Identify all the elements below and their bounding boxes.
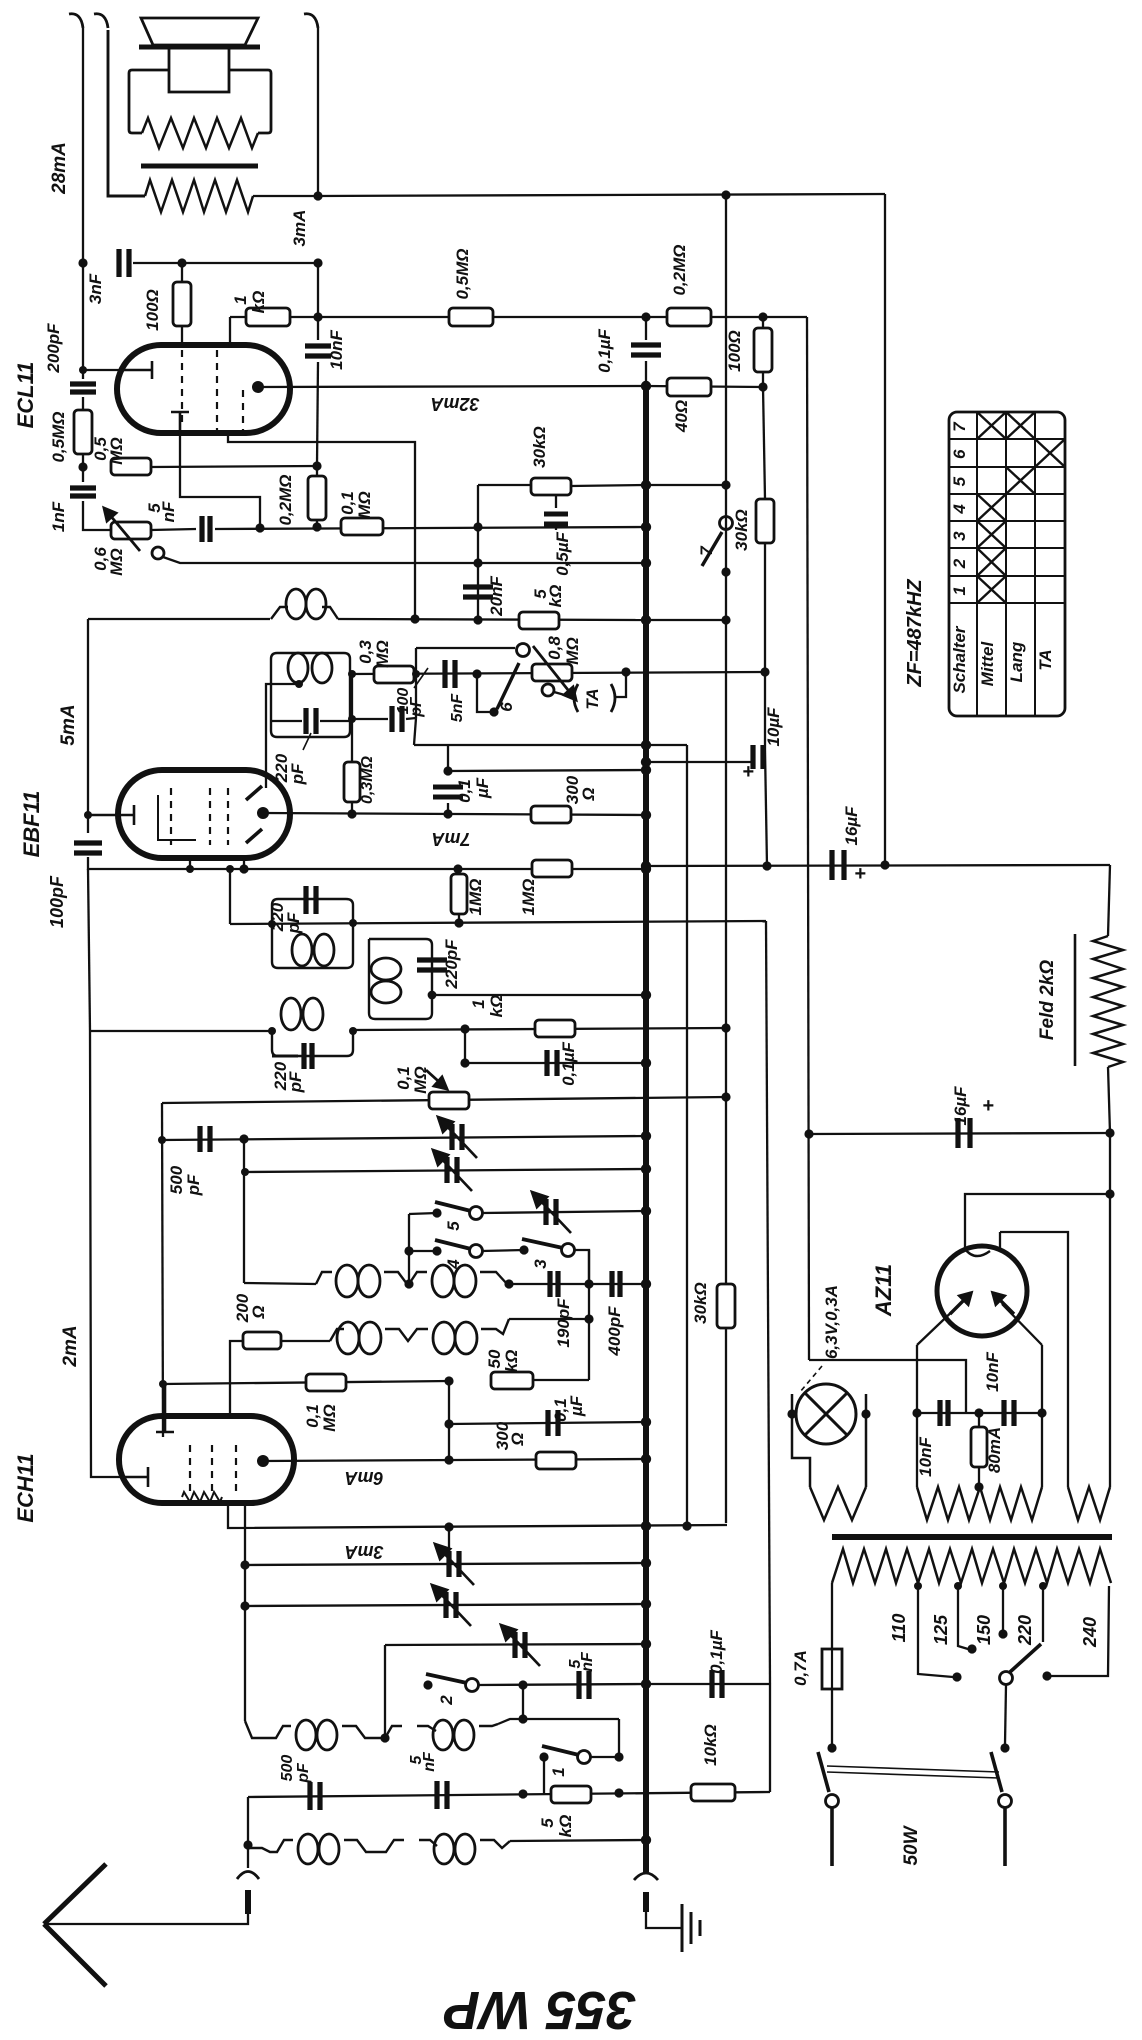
tube ECL11 anode [252,381,264,393]
node 3mA/y263 [313,258,322,267]
svg-text:pF: pF [184,1174,203,1196]
svg-text:3mA: 3mA [290,210,309,247]
node y814 x352 [347,809,356,818]
bus jack pin [643,1892,649,1912]
svg-text:EBF11: EBF11 [19,791,44,858]
svg-text:MΩ: MΩ [320,1404,339,1431]
switch 5 lever [435,1202,471,1211]
switch mains left lever [818,1752,829,1792]
resistor 0,2MΩ bias [308,476,326,520]
tube AZ11 filament right [993,1293,1014,1314]
tube ECH11 heater [182,1492,222,1502]
resistor 0,8MΩ vol [532,664,572,681]
speaker cone base bar [139,45,260,50]
resistor 300Ω screen [531,806,571,823]
rectifier heater winding [1068,1487,1110,1520]
wire 80mA top [978,1413,980,1427]
resistor 0,8MΩ arrow [533,646,576,700]
wire y1565 [245,1563,646,1565]
variable capacitor ant 2 [446,1592,456,1618]
wire heater right arm [1041,1345,1043,1487]
wire y745 [414,744,687,746]
svg-text:µF: µF [473,777,492,799]
node y1795 x619 [614,1788,623,1797]
svg-text:4: 4 [950,504,969,515]
svg-text:7mA: 7mA [431,829,470,849]
svg-text:MΩ: MΩ [107,437,126,464]
node y485 bus [641,480,651,490]
svg-text:3: 3 [950,531,969,541]
wire y718b [406,718,416,719]
tank3 frame [272,1031,353,1056]
wire 28mA rail [82,28,84,263]
switch 7 contact [721,567,730,576]
node osc tank out [428,991,437,1000]
node y1172 bus [641,1164,651,1174]
wire TA left [554,692,572,697]
wire TA right [615,672,626,697]
wire x619 [618,1719,620,1757]
svg-text:100Ω: 100Ω [725,330,744,372]
osc tank frame [369,939,432,1019]
switch mains right stub [1003,1808,1007,1866]
wire y1030 [353,1028,726,1030]
svg-text:pF: pF [288,763,307,785]
svg-text:Lang: Lang [1007,641,1026,682]
wire 1k ohm lead into tube [229,317,231,348]
capacitor 220pF tank3 [304,1043,312,1069]
wire triode cathode [180,433,260,528]
wire x318 cap to y465 [317,362,318,465]
wire x88 rail [87,619,89,833]
voltage selector lever [1010,1644,1041,1672]
tap 240 contact [1042,1671,1051,1680]
node y317/3mA rail [313,312,322,321]
antenna coil row4 end [480,1840,510,1848]
wire y1413 [917,1412,1042,1414]
capacitor 0,1µF ant [712,1670,722,1698]
node y869 1M top [453,864,462,873]
voltage selector pivot [1000,1672,1013,1685]
svg-text:+: + [982,1095,994,1117]
tank3 cap stub [272,1055,298,1058]
wire y620 right [646,619,726,621]
svg-text:3mA: 3mA [344,1542,383,1562]
svg-text:150: 150 [974,1615,994,1645]
wire x448 low [447,803,449,814]
wire x162 [162,1103,163,1437]
switch 1 pivot [578,1751,591,1764]
node y674 rail767 [760,667,769,676]
wire bus feeder lower [645,361,647,386]
switch 1 contact [539,1752,548,1761]
resistor 5kΩ ant [551,1786,591,1803]
svg-text:0,1µF: 0,1µF [707,1629,726,1673]
node x245 y1565 [240,1560,249,1569]
tap 220 node [1039,1582,1047,1590]
wire y1172 [245,1169,646,1172]
wire x230 [229,869,231,924]
connector hook left speaker [94,14,108,28]
tap 150 [1002,1586,1004,1630]
wire row4 to bus [510,1840,646,1841]
node y814 x448 [443,809,452,818]
tap 125 node [954,1582,962,1590]
wire y1138 [162,1136,646,1140]
lamp heater winding [810,1487,866,1520]
resistor 1MΩ grid [451,874,467,914]
svg-text:125: 125 [931,1614,951,1645]
antenna coil row3 loops A [296,1720,337,1750]
wire EBF pin1 [189,858,191,869]
wire y1063 [465,1062,646,1064]
wire speaker to connector [108,30,145,196]
svg-text:10kΩ: 10kΩ [701,1724,720,1766]
node y1133 right [1105,1128,1114,1137]
svg-text:50W: 50W [901,1824,922,1865]
capacitor 0,1µF bus [631,345,661,355]
connector hook antenna [237,1872,259,1880]
tap 110 contact [952,1672,961,1681]
node tank3 right [349,1027,357,1035]
oscillator coil winding B [409,1272,427,1284]
svg-text:AZ11: AZ11 [871,1264,896,1317]
svg-text:0,1µF: 0,1µF [595,328,614,372]
wire 50k right [533,1379,589,1381]
switch 4 contact [432,1246,441,1255]
wire fuse bottom [831,1689,833,1744]
oscillator coil D winding2 [481,1319,509,1334]
svg-text:Mittel: Mittel [978,641,997,687]
output transformer core [141,164,258,169]
wire x448 from y745 [447,745,449,771]
switch 5 pivot [470,1207,483,1220]
wire y485 to bus [571,485,646,486]
node IF2 right [349,919,357,927]
wire pentode cathode [228,433,415,620]
node y195 rail 726 [721,190,730,199]
wire x352 low [351,802,353,814]
node y865 x885 [880,860,889,869]
node y1384 x162 [159,1380,167,1388]
wire EBF anode [263,813,646,815]
svg-text:220: 220 [1015,1615,1035,1646]
switch 3 lever [522,1239,563,1248]
node grid/200pF [79,366,87,374]
resistor 0,3MΩ load [344,762,360,802]
rf choke loops [286,589,326,619]
svg-text:10nF: 10nF [916,1437,935,1477]
lamp bracket left [792,1394,810,1487]
wire 1M grid bottom [458,914,460,923]
wire 100pF to y869 [88,857,646,869]
resistor 0,1MΩ ECH [306,1374,346,1391]
node y528 x478 [473,522,482,531]
node y1284 x409 [404,1279,413,1288]
node y674 TA [621,667,630,676]
wire x244 [243,1139,245,1283]
capacitor 16µF main [832,850,844,880]
svg-text:10nF: 10nF [983,1352,1002,1392]
node y1284 x509 [504,1279,513,1288]
node y317 bus [641,312,650,321]
svg-text:0,1µF: 0,1µF [559,1041,578,1085]
wire sw6 top [416,647,515,649]
wire 100 ohm lead [181,263,183,284]
svg-text:TA: TA [583,688,602,709]
svg-text:MΩ: MΩ [373,640,392,667]
antenna coil row4 link [419,1840,437,1846]
oscillator coil A loops [336,1265,380,1297]
node y869 x230 [226,865,234,873]
svg-text:kΩ: kΩ [249,291,268,314]
oscillator coil winding A2 [384,1272,407,1284]
wire x523 [522,1685,524,1719]
capacitor 100pF AVC [392,706,402,732]
svg-text:100pF: 100pF [47,875,67,928]
leader 100pF det [414,668,428,688]
switch 7 lever [702,532,722,566]
tube ECL11 grid dashes [182,350,243,430]
wire y1100 [162,1097,726,1103]
node y1528 bus [641,1521,651,1531]
node y467 left [78,462,87,471]
node y762 bus [641,757,651,767]
capacitor 500pF ant [310,1782,320,1810]
svg-text:1MΩ: 1MΩ [519,879,538,916]
wire x385 [384,1645,386,1738]
svg-text:Feld 2kΩ: Feld 2kΩ [1037,960,1058,1040]
field coil Feld 2kΩ [1093,936,1123,1067]
node antenna [243,1840,252,1849]
potentiometer 0,6MΩ arrow [104,508,140,551]
wire y770 [448,770,646,771]
antenna coil row4 loops A [298,1834,339,1864]
mains primary winding [832,1549,1111,1583]
tank3 loops [281,998,323,1030]
node y1030 rail726 [721,1023,730,1032]
wire x245 down [244,1503,246,1721]
switch table frame [949,412,1065,716]
switch mains left contact [827,1743,836,1752]
antenna coil row4 mid [344,1840,404,1852]
svg-text:0,5MΩ: 0,5MΩ [49,411,68,462]
svg-text:1: 1 [469,999,488,1008]
svg-text:5mA: 5mA [58,704,79,745]
svg-text:30kΩ: 30kΩ [691,1282,710,1324]
node 100 ohm top [177,258,186,267]
node y745 bus [641,740,651,750]
svg-text:+: + [854,863,866,885]
node y317 R3 top [758,312,767,321]
tube AZ11 filament left [950,1293,971,1314]
tap 110 node [914,1582,922,1590]
node IF2 left [268,920,276,928]
node lamp right [861,1409,870,1418]
tap 240 [1047,1586,1109,1676]
heater winding main [917,1487,1042,1520]
tap 220 [1042,1586,1044,1642]
wire y718 [352,718,388,720]
wire 0,5uF bottom [555,527,557,530]
resistor 300Ω ECH [536,1452,576,1469]
tap 150 contact [998,1629,1007,1638]
capacitor 10nF [305,346,331,356]
antenna coil row4 start [248,1840,293,1852]
wire 0,5M to node [82,454,84,467]
wire y1030 left [90,1030,272,1032]
IF transformer 1 cap stub [271,720,302,722]
antenna coil row4 loops B [434,1834,475,1864]
chassis bus [643,386,649,1872]
svg-text:1nF: 1nF [49,501,68,532]
switch mains right pivot [999,1795,1012,1808]
capacitor 1nF [70,488,96,496]
svg-text:1: 1 [549,1767,568,1776]
variable capacitor tuning 2 [447,1157,457,1183]
node heater winding mid [974,1482,983,1491]
wire sw6 branch [415,648,417,674]
wire selector down [1005,1685,1006,1744]
wire x83 to 1nF [82,467,84,482]
wire x409 [408,1214,410,1284]
resistor 40Ω [667,378,711,396]
resistor 10kΩ [691,1784,735,1801]
svg-text:MΩ: MΩ [355,491,374,518]
switch mains coupling [827,1766,999,1778]
wire AZ11 anode up [965,1194,1110,1249]
node y770 left [443,766,452,775]
oscillator coil C loops [337,1322,381,1354]
svg-text:Ω: Ω [579,787,598,801]
node speaker/3mA junction [313,191,322,200]
resistor 0,1MΩ grid2 [341,518,383,535]
capacitor 100pF grid [74,843,102,853]
resistor 1MΩ AVC [532,860,572,877]
node y528 bus [641,522,651,532]
svg-text:+: + [742,761,754,783]
resistor 0,3MΩ series [374,666,414,683]
switch 2 pivot [466,1679,479,1692]
wire rail726 [725,195,727,1523]
variable capacitor ant 1 [449,1551,459,1577]
wire ECH cathode [228,1503,727,1528]
node y1565 bus [641,1558,651,1568]
wire y1424 [449,1422,646,1424]
variable capacitor ant 1 arrow [435,1544,474,1585]
speaker cone [141,18,258,45]
IF transformer 1 primary loops [288,653,332,683]
capacitor 5nF AF [202,516,210,542]
capacitor 10nF heater2 [1004,1400,1014,1426]
wire y485 [478,484,532,486]
wire y528 [215,527,646,529]
node x409 y1251 [404,1246,413,1255]
wire ECL11 anode y386 [258,386,646,387]
node y1063 bus [641,1058,651,1068]
wire 200pF to 0,5M [82,397,84,410]
switch mains left pivot [826,1795,839,1808]
ground symbol [682,1904,700,1952]
wire 30k feed top [763,387,765,499]
node x244 y1172 [241,1168,249,1176]
svg-text:2: 2 [437,1695,456,1706]
wire rail x885 [884,194,886,865]
antenna symbol arrow [44,1864,106,1986]
output transformer frame right [229,70,271,133]
svg-text:240: 240 [1080,1617,1100,1648]
node y869 pin2 [239,864,248,873]
connector hook bus bottom [634,1873,658,1880]
wire x416 branch [415,674,417,718]
node y1424 x449 [444,1419,453,1428]
capacitor 0,1µF ECH [548,1410,558,1436]
svg-text:6: 6 [950,449,969,459]
wire rail1110 lower [1109,1194,1111,1487]
leader 220pF IF1 [303,733,311,750]
variable capacitor tuning 1 arrow [438,1117,477,1158]
capacitor 16µF second [958,1118,970,1148]
node y1413 mid [974,1408,983,1417]
wire y317 grid line [230,316,807,318]
node y770 bus [641,765,651,775]
wire y1645 [385,1644,646,1645]
oscillator coil B loops [432,1265,476,1297]
wire x478 [477,485,479,620]
svg-text:pF: pF [295,1762,312,1784]
svg-text:10µF: 10µF [764,707,783,747]
node y1528 rail687 [682,1521,691,1530]
wire antenna lead [44,1912,248,1924]
node y1138 bus [641,1131,651,1141]
wire 80mA bottom [978,1467,980,1487]
wire ECH anode [263,1459,646,1461]
wire y386 bus to 40 ohm [646,386,763,387]
svg-text:5nF: 5nF [449,693,466,723]
node y528 x317 [312,522,321,531]
svg-text:28mA: 28mA [49,142,70,195]
svg-text:Ω: Ω [508,1432,527,1446]
svg-text:0,8: 0,8 [545,636,564,660]
wire x90 [88,869,90,1031]
wire y1719 [498,1719,619,1724]
wire 200 ohm right [281,1340,330,1342]
switch 1 lever [542,1746,579,1755]
output transformer secondary winding [142,118,258,148]
capacitor 220pF osc [417,960,447,970]
node y1284 x589 [584,1279,593,1288]
wire pot to 5nF [151,529,196,530]
resistor 100Ω anode [754,328,772,372]
wire rail808 bottom [809,1360,966,1413]
IF transformer 2 frame [272,899,353,968]
svg-text:1: 1 [231,295,250,304]
tap 110 [918,1586,953,1677]
resistor 200Ω [243,1332,281,1349]
wire x318 y317 to cap [317,317,319,340]
wire fuse top [831,1583,833,1649]
tube ECH11 envelope [119,1416,294,1503]
capacitor 0,5µF [544,514,568,524]
wire x317 y520-y527 [316,520,318,527]
wire bus to ground [646,1910,682,1928]
node y869 bus [641,864,651,874]
tube EBF11 envelope [118,770,290,858]
wire 0,5uF top [555,495,557,508]
svg-text:6,3V,0,3A: 6,3V,0,3A [822,1285,841,1359]
switch mains left stub [830,1808,834,1866]
speaker voice coil box [169,48,229,92]
